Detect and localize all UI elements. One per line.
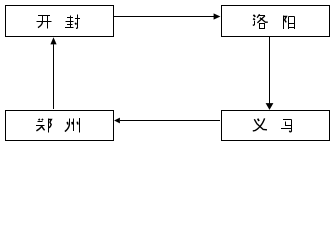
arrowhead right at 洛阳 [214,13,221,19]
wire 洛阳->义马 [269,37,271,104]
label 郑 [36,118,51,132]
box 郑州 (bottom-left) [6,111,114,141]
flow diagram: 开封 -> 洛阳 -> 义马 -> 郑州 -> 开封 [0,0,334,146]
wire 开封->洛阳 [114,16,214,18]
label 州 [65,118,80,133]
label 马 [281,120,292,132]
arrowhead up at 开封 [50,37,56,44]
box 开封 (top-left) [6,6,114,37]
label 阳 [284,16,295,29]
label 开 [36,16,51,29]
arrowhead left at 郑州 [114,118,120,124]
label 洛 [253,14,268,28]
wire 郑州->开封 [53,44,55,109]
wire 义马->郑州 [120,120,220,122]
box 洛阳 (top-right) [222,6,330,37]
label 义 [253,118,267,130]
label 封 [65,15,80,29]
box 义马 (bottom-right) [222,111,330,141]
arrowhead down at 义马 [266,103,274,110]
